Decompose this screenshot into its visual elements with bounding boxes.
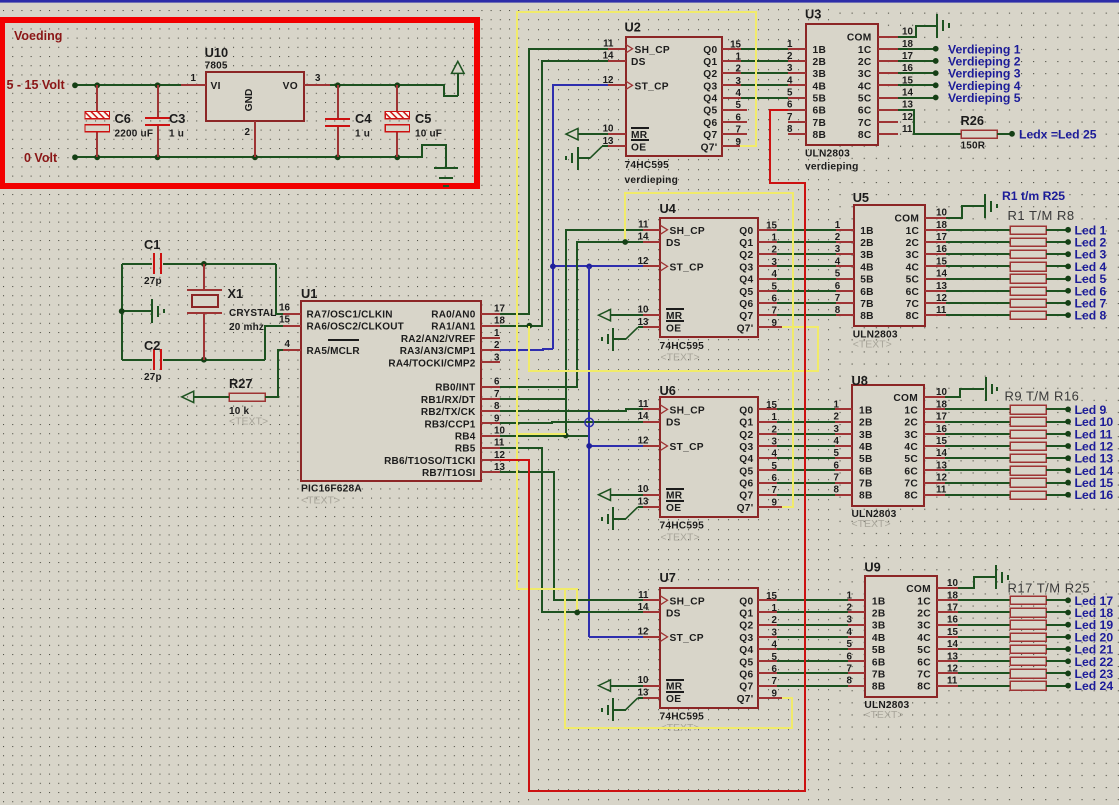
wire R1 to Led 1 node xyxy=(1046,229,1068,231)
svg-text:9: 9 xyxy=(494,413,500,424)
svg-text:5B: 5B xyxy=(872,645,886,656)
U9 pin 4 4B xyxy=(848,636,865,638)
svg-text:OE: OE xyxy=(631,142,646,153)
svg-text:13: 13 xyxy=(947,651,958,662)
U4 pin 1 Q1 xyxy=(758,241,777,243)
svg-text:U5: U5 xyxy=(853,190,869,205)
svg-text:Voeding: Voeding xyxy=(14,29,62,43)
svg-text:10: 10 xyxy=(638,484,649,495)
U8 pin 11 8C xyxy=(924,494,945,496)
svg-text:13: 13 xyxy=(638,496,649,507)
svg-text:3: 3 xyxy=(315,73,321,84)
U3 pin 17 2C xyxy=(878,60,898,62)
svg-text:7C: 7C xyxy=(858,118,872,129)
U9 pin 14 5C xyxy=(937,648,958,650)
U4 pin 11 SH_CP xyxy=(643,229,660,231)
ground (OE) xyxy=(577,147,579,170)
svg-text:Q6: Q6 xyxy=(703,118,717,129)
svg-text:6B: 6B xyxy=(813,106,827,117)
regulator U10 7805 xyxy=(206,72,304,121)
U1 pin 16 RA7/OSC1/CLKIN xyxy=(283,313,301,315)
svg-text:6B: 6B xyxy=(860,287,874,298)
svg-text:3: 3 xyxy=(736,76,742,87)
wire R8 to Led 8 node xyxy=(1046,314,1068,316)
node latch/U4 junction left xyxy=(550,263,556,269)
svg-text:ST_CP: ST_CP xyxy=(670,633,704,644)
svg-text:MR: MR xyxy=(666,682,683,693)
resistor R8 xyxy=(1010,311,1046,319)
input arrow terminal (R27) xyxy=(182,391,194,402)
wire R15 to Led 15 node xyxy=(1046,482,1068,484)
wire red RB6 to U3 6B loop xyxy=(500,110,805,791)
svg-text:1C: 1C xyxy=(906,226,920,237)
U4 pin 7 Q7 xyxy=(758,314,777,316)
node A xyxy=(201,261,207,267)
U3 pin 13 6C xyxy=(878,109,898,111)
svg-text:Q1: Q1 xyxy=(739,238,753,249)
svg-text:7B: 7B xyxy=(860,299,874,310)
svg-text:10: 10 xyxy=(638,675,649,686)
svg-text:1: 1 xyxy=(772,412,778,423)
svg-text:R9 T/M R16: R9 T/M R16 xyxy=(1005,389,1080,404)
svg-text:RB2/TX/CK: RB2/TX/CK xyxy=(421,407,476,418)
U9 pin 6 6B xyxy=(848,660,865,662)
svg-text:C5: C5 xyxy=(415,111,431,126)
U3 pin 4 4B xyxy=(788,84,806,86)
U1 pin 10 RB4 xyxy=(481,435,500,437)
svg-text:Led 16: Led 16 xyxy=(1075,488,1114,502)
svg-text:Q5: Q5 xyxy=(703,106,717,117)
wire to R21 xyxy=(958,648,1010,650)
svg-text:4: 4 xyxy=(736,88,742,99)
svg-text:1: 1 xyxy=(494,328,500,339)
node Led 2 xyxy=(1065,239,1071,245)
U4 pin 9 Q7' xyxy=(758,326,782,328)
window top border xyxy=(0,0,1119,3)
U5 pin 1 1B xyxy=(836,229,854,231)
svg-text:150R: 150R xyxy=(961,141,986,152)
wire C2 row xyxy=(122,359,152,361)
svg-text:Q3: Q3 xyxy=(739,633,753,644)
svg-text:ST_CP: ST_CP xyxy=(670,262,704,273)
wire 1C row to Verdieping 4 xyxy=(898,84,936,86)
svg-text:6C: 6C xyxy=(858,106,872,117)
svg-text:RA6/OSC2/CLKOUT: RA6/OSC2/CLKOUT xyxy=(307,322,404,333)
wire ground to OE xyxy=(613,518,626,520)
U7 pin 12 ST_CP xyxy=(643,636,660,638)
svg-text:12: 12 xyxy=(902,112,913,123)
ground (OE) xyxy=(612,328,614,351)
U9 pin 12 7C xyxy=(937,672,958,674)
svg-text:1: 1 xyxy=(736,51,742,62)
svg-text:11: 11 xyxy=(902,124,913,135)
svg-text:Q4: Q4 xyxy=(703,94,717,105)
svg-text:7: 7 xyxy=(772,306,778,317)
resistor R20 xyxy=(1010,633,1046,641)
wire yellow spur at RB4 row xyxy=(517,433,566,435)
wire R12 to Led 12 node xyxy=(1046,445,1068,447)
U6 pin 15 Q0 xyxy=(758,408,777,410)
svg-text:4B: 4B xyxy=(859,442,873,453)
U9 pin 11 8C xyxy=(937,685,958,687)
U5 pin 16 3C xyxy=(925,253,946,255)
svg-text:15: 15 xyxy=(730,39,741,50)
power rail terminal (U8) xyxy=(985,377,987,401)
svg-text:1: 1 xyxy=(772,603,778,614)
svg-text:2B: 2B xyxy=(860,238,874,249)
svg-text:Q1: Q1 xyxy=(739,608,753,619)
U1 pin 11 RB5 xyxy=(481,447,500,449)
U7 pin 7 Q7 xyxy=(758,685,777,687)
svg-text:U9: U9 xyxy=(864,560,880,575)
svg-text:1 u: 1 u xyxy=(169,129,184,140)
U7 pin 14 DS xyxy=(643,611,660,613)
wire RB7 to U7 SH_CP xyxy=(500,472,643,600)
svg-text:RA4/TOCKI/CMP2: RA4/TOCKI/CMP2 xyxy=(388,358,475,369)
U1 pin 4 RA5/MCLR xyxy=(283,349,301,351)
U6 pin 5 Q5 xyxy=(758,469,777,471)
U1 pin 1 RA2/AN2/VREF xyxy=(481,337,500,339)
U8 pin 1 1B xyxy=(835,408,852,410)
wire R20 to Led 20 node xyxy=(1046,636,1068,638)
svg-text:<TEXT>: <TEXT> xyxy=(864,709,903,721)
U8 pin 8 8B xyxy=(835,494,852,496)
wire R24 to Led 24 node xyxy=(1046,685,1068,687)
svg-text:17: 17 xyxy=(936,232,947,243)
svg-text:7: 7 xyxy=(736,125,742,136)
svg-text:Q1: Q1 xyxy=(703,57,717,68)
svg-text:5: 5 xyxy=(772,281,778,292)
svg-text:Q5: Q5 xyxy=(739,287,753,298)
wire R13 to Led 13 node xyxy=(1046,457,1068,459)
wire R17 to Led 17 node xyxy=(1046,599,1068,601)
svg-text:15: 15 xyxy=(766,220,777,231)
svg-text:4C: 4C xyxy=(906,262,920,273)
wire to R4 xyxy=(946,265,1010,267)
U1 pin 6 RB0/INT xyxy=(481,386,500,388)
U2 pin 1 Q1 xyxy=(722,60,741,62)
svg-text:11: 11 xyxy=(603,38,614,49)
U5 pin 8 8B xyxy=(836,314,854,316)
svg-text:4: 4 xyxy=(772,269,778,280)
U1 pin 13 RB7/T1OSI xyxy=(481,471,500,473)
U1 pin 3 RA4/TOCKI/CMP2 xyxy=(481,361,500,363)
wire to R3 xyxy=(946,253,1010,255)
wire top rail right xyxy=(330,85,458,96)
wire Q0 to 1B xyxy=(741,48,788,50)
node Verdieping 2 xyxy=(933,58,939,64)
svg-text:Led 24: Led 24 xyxy=(1075,679,1114,693)
wire C2 to U1 pin15 xyxy=(265,326,283,360)
svg-text:4: 4 xyxy=(772,640,778,651)
svg-text:5B: 5B xyxy=(813,94,827,105)
U7 pin 9 Q7' xyxy=(758,697,782,699)
wire Q7 row 315 xyxy=(777,314,836,316)
resistor R4 xyxy=(1010,262,1046,271)
node Led 20 xyxy=(1065,634,1071,640)
U4 pin 12 ST_CP xyxy=(643,265,660,267)
U3 pin 6 6B xyxy=(788,109,806,111)
svg-text:14: 14 xyxy=(638,231,649,242)
wire Q1 row 422 xyxy=(777,421,835,423)
svg-text:16: 16 xyxy=(279,303,290,314)
svg-text:OE: OE xyxy=(666,694,681,705)
svg-text:5: 5 xyxy=(772,461,778,472)
svg-text:5: 5 xyxy=(835,269,841,280)
resistor R19 xyxy=(1010,620,1046,629)
shift register U6 74HC595 xyxy=(660,397,758,517)
U9 pin 1 1B xyxy=(848,599,865,601)
U6 pin 6 Q6 xyxy=(758,482,777,484)
svg-text:DS: DS xyxy=(666,238,681,249)
U8 pin 2 2B xyxy=(835,421,852,423)
wire to R23 xyxy=(958,672,1010,674)
svg-text:4B: 4B xyxy=(872,633,886,644)
U9 pin 2 2B xyxy=(848,611,865,613)
svg-text:27p: 27p xyxy=(144,276,162,287)
wire yellow RA1 branch to U4 Q7 apostrophe xyxy=(529,326,818,371)
U10 pin 2 xyxy=(254,121,256,157)
svg-text:RB0/INT: RB0/INT xyxy=(435,383,475,394)
ground (OE) xyxy=(612,507,614,530)
U3 pin 15 4C xyxy=(878,84,898,86)
U8 pin 3 3B xyxy=(835,433,852,435)
U8 pin 18 1C xyxy=(924,408,945,410)
U4 pin 3 Q3 xyxy=(758,265,777,267)
svg-text:<TEXT>: <TEXT> xyxy=(229,415,268,427)
svg-text:27p: 27p xyxy=(144,372,162,383)
svg-text:15: 15 xyxy=(947,627,958,638)
node Led 7 xyxy=(1065,300,1071,306)
svg-text:10: 10 xyxy=(936,208,947,219)
U2 pin 11 SH_CP xyxy=(608,48,626,50)
svg-text:8B: 8B xyxy=(859,491,873,502)
wire RB5 to U7 DS xyxy=(500,448,643,612)
wire Q6 row 673 xyxy=(777,672,848,674)
wire 6C to R26 xyxy=(898,110,961,134)
U1 pin 17 RA0/AN0 xyxy=(481,313,500,315)
U9 pin 16 3C xyxy=(937,624,958,626)
svg-text:7C: 7C xyxy=(904,479,918,490)
wire Q3 to 4B xyxy=(741,84,788,86)
U8 pin 6 6B xyxy=(835,469,852,471)
node RA1/yellow junction xyxy=(527,323,533,329)
svg-text:RA7/OSC1/CLKIN: RA7/OSC1/CLKIN xyxy=(307,310,393,321)
node Led 6 xyxy=(1065,288,1071,294)
U8 pin 10 COM xyxy=(924,396,945,398)
U4 pin 10 MR xyxy=(643,314,660,316)
svg-text:R1 t/m R25: R1 t/m R25 xyxy=(1002,189,1065,203)
svg-text:15: 15 xyxy=(766,400,777,411)
U3 pin 3 3B xyxy=(788,72,806,74)
wire U9 COM to power xyxy=(958,577,995,588)
svg-text:2C: 2C xyxy=(906,238,920,249)
svg-text:4C: 4C xyxy=(858,81,872,92)
U4 pin 4 Q4 xyxy=(758,278,777,280)
node Led 3 xyxy=(1065,251,1071,257)
U7 pin 3 Q3 xyxy=(758,636,777,638)
svg-text:9: 9 xyxy=(772,688,778,699)
svg-text:17: 17 xyxy=(936,412,947,423)
svg-text:2B: 2B xyxy=(859,418,873,429)
node Led 19 xyxy=(1065,622,1071,628)
svg-text:14: 14 xyxy=(947,639,958,650)
wire to R20 xyxy=(958,636,1010,638)
svg-text:2C: 2C xyxy=(904,418,918,429)
svg-text:8B: 8B xyxy=(872,682,886,693)
svg-text:2: 2 xyxy=(736,64,742,75)
svg-text:7805: 7805 xyxy=(205,61,228,72)
svg-text:7C: 7C xyxy=(906,299,920,310)
wire latch to U4 ST_CP xyxy=(553,265,643,267)
wire Q0 row 409 xyxy=(777,408,835,410)
svg-text:RA3/AN3/CMP1: RA3/AN3/CMP1 xyxy=(400,346,476,357)
svg-text:7: 7 xyxy=(494,389,500,400)
svg-text:6C: 6C xyxy=(917,657,931,668)
wire R19 to Led 19 node xyxy=(1046,624,1068,626)
U6 pin 12 ST_CP xyxy=(643,445,660,447)
wire Q1 row 612 xyxy=(777,611,848,613)
svg-text:10 uF: 10 uF xyxy=(415,129,442,140)
svg-text:9: 9 xyxy=(772,497,778,508)
svg-text:11: 11 xyxy=(638,219,649,230)
wire RB0 to U4 DS xyxy=(500,242,643,387)
node Led 4 xyxy=(1065,263,1071,269)
svg-text:18: 18 xyxy=(947,590,958,601)
svg-text:<TEXT>: <TEXT> xyxy=(852,518,891,530)
wire RB3 to U6 DS xyxy=(500,422,643,423)
U8 pin 16 3C xyxy=(924,433,945,435)
U9 pin 10 COM xyxy=(937,587,958,589)
input arrow terminal (MR) xyxy=(599,309,611,320)
wire R21 to Led 21 node xyxy=(1046,648,1068,650)
U2 pin 4 Q4 xyxy=(722,97,741,99)
wire Q5 row 291 xyxy=(777,290,836,292)
svg-text:R26: R26 xyxy=(961,113,984,128)
wire Q3 row 446 xyxy=(777,445,835,447)
svg-text:C3: C3 xyxy=(169,111,185,126)
resistor R3 xyxy=(1010,250,1046,258)
svg-text:7B: 7B xyxy=(859,479,873,490)
resistor R16 xyxy=(1010,491,1046,499)
wire R14 to Led 14 node xyxy=(1046,469,1068,471)
svg-text:SH_CP: SH_CP xyxy=(670,596,705,607)
wire Q4 row 279 xyxy=(777,278,836,280)
svg-text:Q2: Q2 xyxy=(739,430,753,441)
svg-text:7: 7 xyxy=(834,473,840,484)
svg-text:1: 1 xyxy=(772,232,778,243)
U8 pin 13 6C xyxy=(924,469,945,471)
svg-text:1B: 1B xyxy=(860,226,874,237)
capacitor C6 xyxy=(96,85,98,112)
U3 pin 14 5C xyxy=(878,97,898,99)
wire Q4 row 458 xyxy=(777,457,835,459)
U5 pin 13 6C xyxy=(925,290,946,292)
svg-text:0 Volt: 0 Volt xyxy=(24,151,58,165)
svg-text:U6: U6 xyxy=(660,383,676,398)
wire R5 to Led 5 node xyxy=(1046,278,1068,280)
svg-text:Q2: Q2 xyxy=(703,69,717,80)
node Led 15 xyxy=(1065,480,1071,486)
svg-text:6: 6 xyxy=(772,293,778,304)
svg-text:8: 8 xyxy=(787,124,793,135)
svg-text:Q2: Q2 xyxy=(739,621,753,632)
U9 pin 17 2C xyxy=(937,611,958,613)
U1 pin 7 RB1/RX/DT xyxy=(481,398,500,400)
resistor R17 xyxy=(1010,596,1046,604)
svg-text:20 mhz: 20 mhz xyxy=(229,322,264,333)
wire to R17 xyxy=(958,599,1010,601)
svg-text:14: 14 xyxy=(936,269,947,280)
svg-text:ULN2803: ULN2803 xyxy=(805,149,850,160)
svg-text:6: 6 xyxy=(736,112,742,123)
input arrow terminal (MR) xyxy=(566,128,578,139)
svg-text:2B: 2B xyxy=(813,57,827,68)
node Led 16 xyxy=(1065,492,1071,498)
svg-text:Verdieping 5: Verdieping 5 xyxy=(948,91,1021,105)
shift register U7 74HC595 xyxy=(660,588,758,708)
svg-text:3B: 3B xyxy=(813,69,827,80)
U7 pin 1 Q1 xyxy=(758,611,777,613)
svg-text:3C: 3C xyxy=(917,621,931,632)
svg-text:6B: 6B xyxy=(872,657,886,668)
U8 pin 7 7B xyxy=(835,482,852,484)
U8 pin 12 7C xyxy=(924,482,945,484)
node Ledx xyxy=(1009,131,1015,137)
wire Q3 row 266 xyxy=(777,265,836,267)
svg-text:Q7': Q7' xyxy=(737,503,754,514)
wire arrow to R27 xyxy=(194,396,229,398)
svg-text:2B: 2B xyxy=(872,608,886,619)
node Led 24 xyxy=(1065,683,1071,689)
power arrow terminal xyxy=(452,61,465,73)
svg-text:OE: OE xyxy=(666,323,681,334)
U7 pin 13 OE xyxy=(643,697,660,699)
wire to R24 xyxy=(958,685,1010,687)
capacitor C3 xyxy=(157,85,159,118)
svg-text:Q5: Q5 xyxy=(739,657,753,668)
U5 pin 4 4B xyxy=(836,265,854,267)
wire Q1 to 2B xyxy=(741,60,788,62)
svg-text:RB6/T1OSO/T1CKI: RB6/T1OSO/T1CKI xyxy=(384,456,475,467)
svg-text:RA1/AN1: RA1/AN1 xyxy=(431,322,475,333)
svg-text:2: 2 xyxy=(772,615,778,626)
U6 pin 2 Q2 xyxy=(758,433,777,435)
U3 pin 12 7C xyxy=(878,121,898,123)
U5 pin 6 6B xyxy=(836,290,854,292)
wire R11 to Led 11 node xyxy=(1046,433,1068,435)
svg-text:3B: 3B xyxy=(860,250,874,261)
wire to R19 xyxy=(958,624,1010,626)
wire to R14 xyxy=(945,469,1010,471)
U1 pin 8 RB2/TX/CK xyxy=(481,410,500,412)
wire RB1 to U4 SH_CP xyxy=(500,230,643,399)
input arrow terminal (MR) xyxy=(599,489,611,500)
U9 pin 18 1C xyxy=(937,599,958,601)
node Led 17 xyxy=(1065,597,1071,603)
U4 pin 15 Q0 xyxy=(758,229,777,231)
svg-text:8B: 8B xyxy=(813,130,827,141)
svg-text:4B: 4B xyxy=(860,262,874,273)
power rail terminal (U9) xyxy=(995,565,997,589)
svg-text:8: 8 xyxy=(494,401,500,412)
resistor R27 xyxy=(229,393,265,401)
wire to R6 xyxy=(946,290,1010,292)
svg-text:Q0: Q0 xyxy=(739,405,753,416)
crystal X1 xyxy=(203,264,205,290)
svg-text:8B: 8B xyxy=(860,311,874,322)
svg-text:10: 10 xyxy=(494,426,505,437)
